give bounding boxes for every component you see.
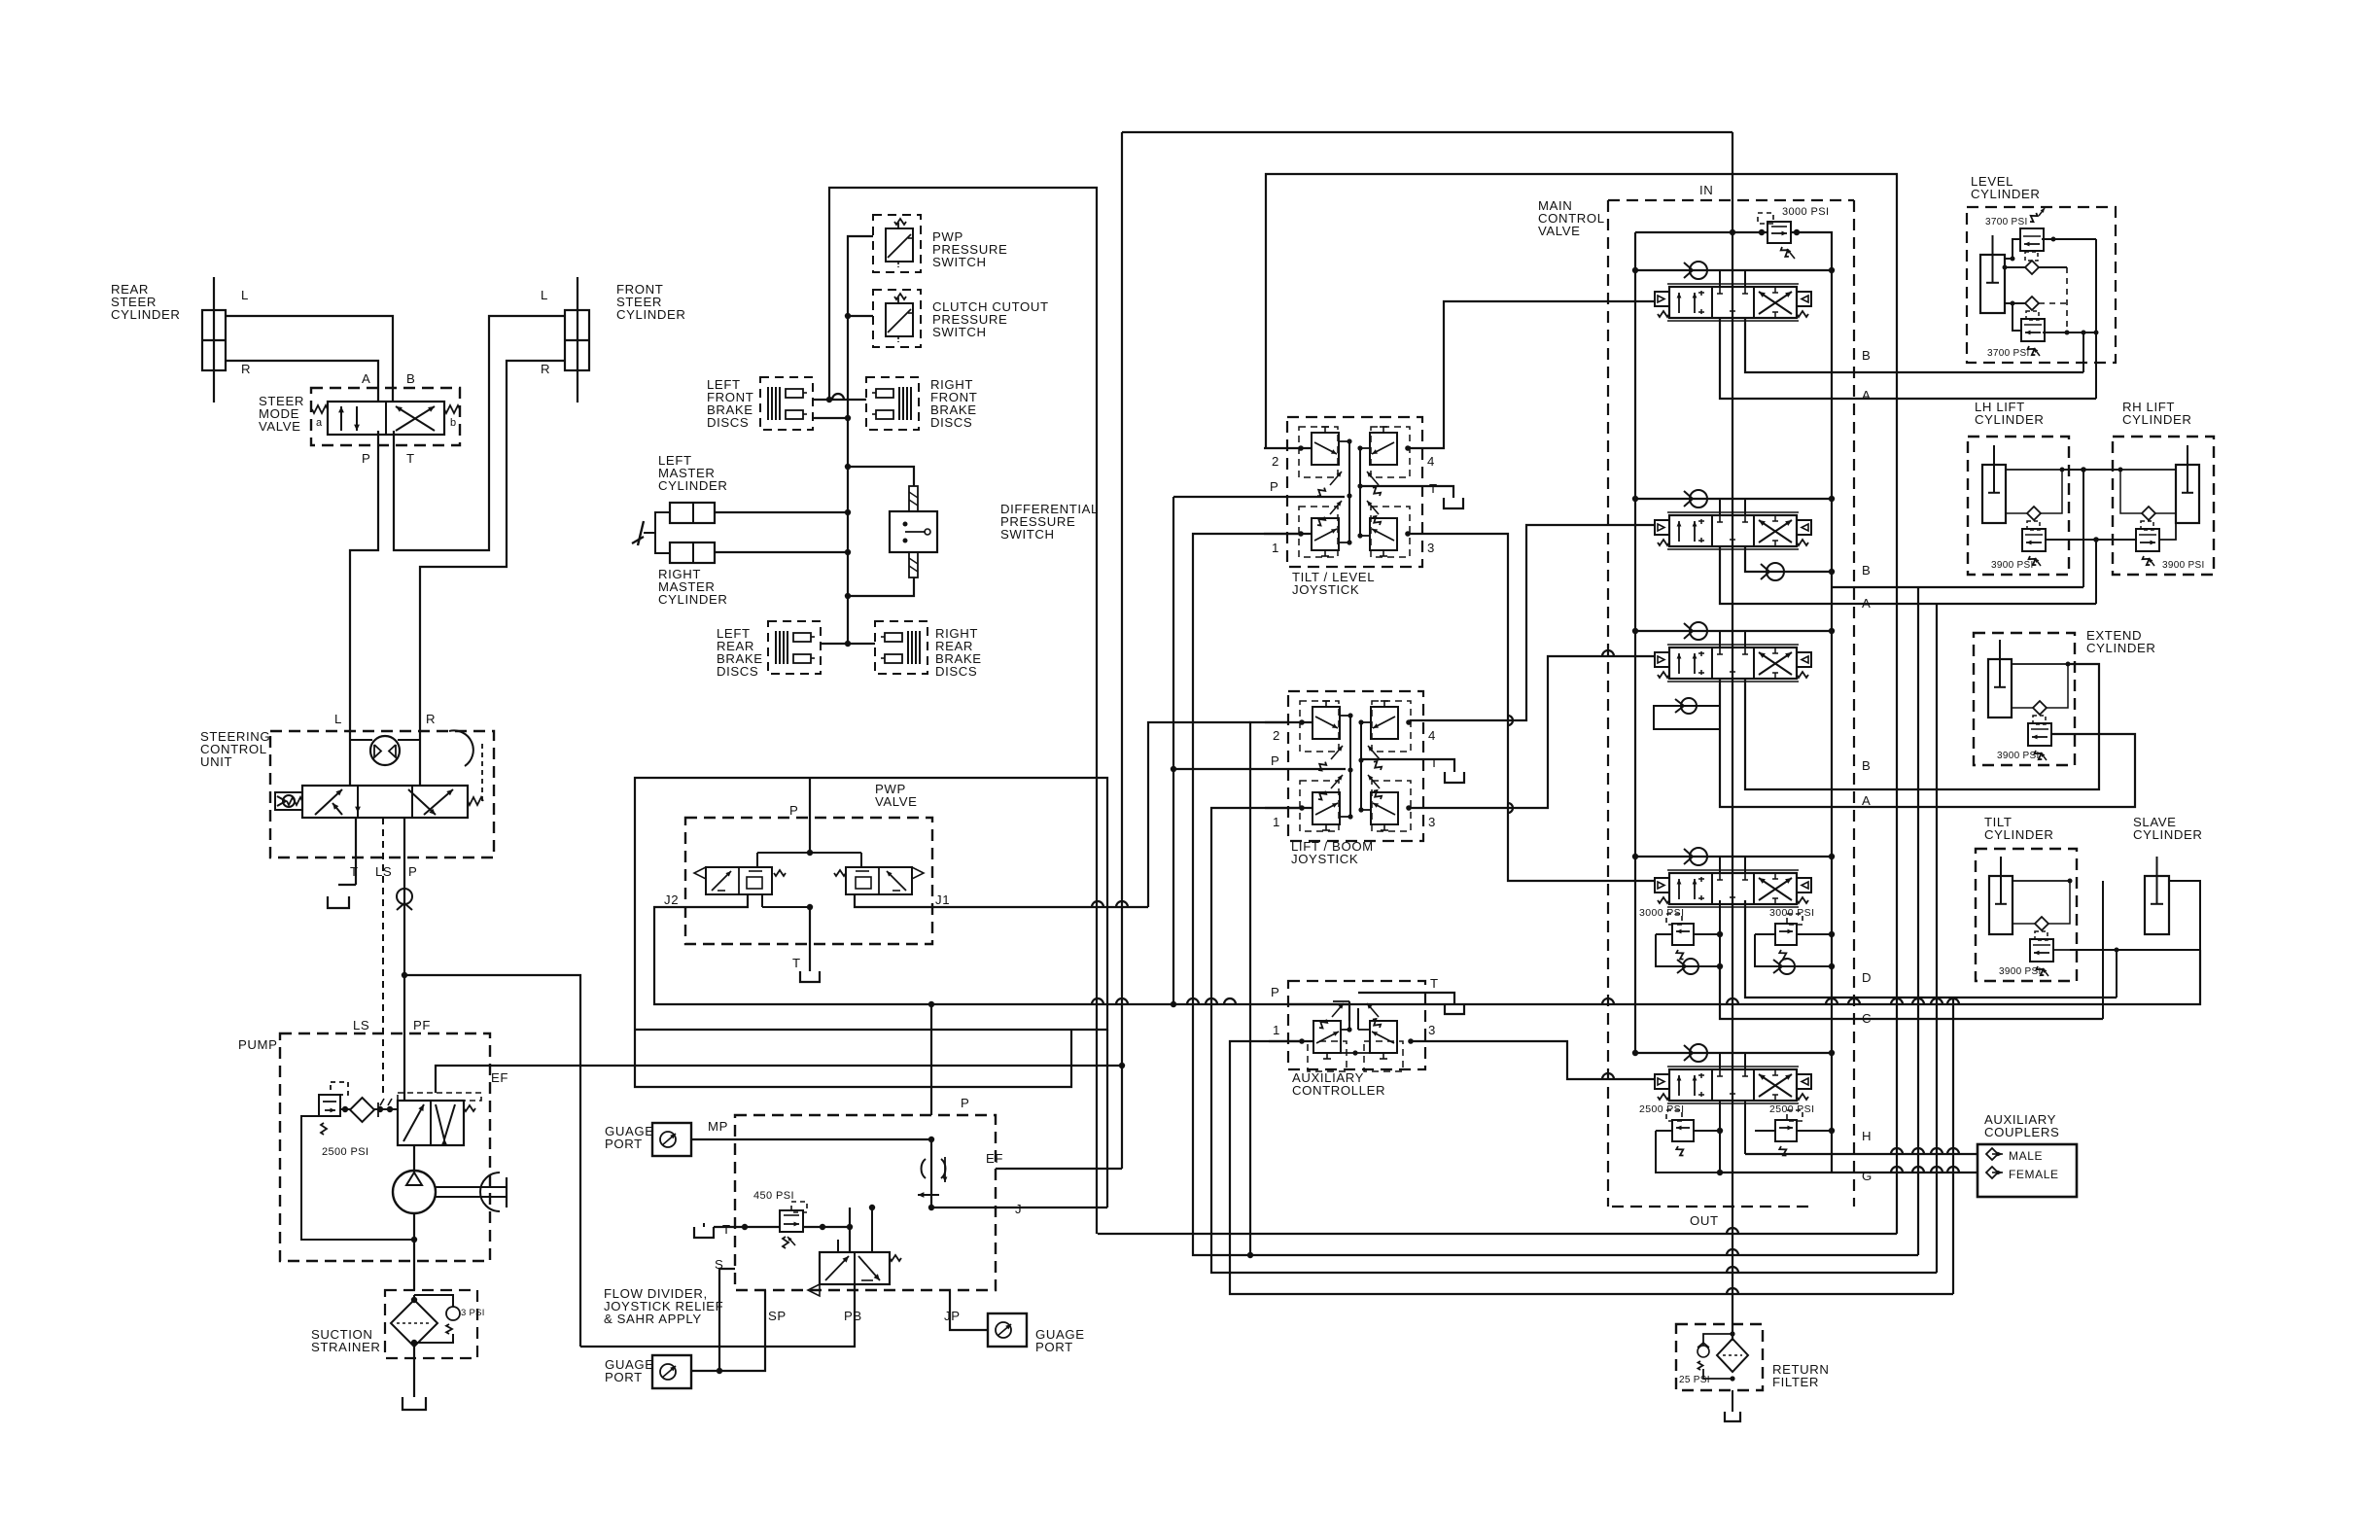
- level bot port: [2005, 302, 2025, 304]
- level cb bot out: [2043, 332, 2096, 333]
- wire pwp switch: [848, 236, 873, 644]
- tilt diamond: [2035, 917, 2048, 930]
- svg-text:DISCS: DISCS: [717, 664, 758, 679]
- level cylinder box: [1967, 207, 2116, 363]
- svg-text:DISCS: DISCS: [707, 415, 749, 430]
- wire tl port3 to s4: [1409, 534, 1655, 881]
- left front brake discs: [760, 377, 813, 430]
- filter to tank: [1732, 1390, 1733, 1412]
- svg-text:SWITCH: SWITCH: [932, 255, 987, 269]
- wire front L: [394, 316, 565, 550]
- svg-text:CYLINDER: CYLINDER: [1984, 827, 2053, 842]
- tl T out: [1360, 486, 1453, 498]
- svg-text:FILTER: FILTER: [1772, 1375, 1819, 1389]
- filter diamond: [1717, 1339, 1748, 1372]
- wire PB down: [580, 1284, 855, 1347]
- svg-text:FEMALE: FEMALE: [2009, 1168, 2059, 1181]
- mcv dashed border: [1608, 199, 1854, 201]
- pump relief 2500: [319, 1095, 340, 1116]
- svg-text:UNIT: UNIT: [200, 754, 232, 769]
- wire rear R: [226, 361, 378, 402]
- pwp left solenoid valve: [706, 867, 772, 894]
- svg-text:CYLINDER: CYLINDER: [111, 307, 180, 322]
- svg-text:L: L: [541, 288, 548, 302]
- svg-text:MP: MP: [708, 1119, 728, 1134]
- wire bus1: [1098, 1233, 1897, 1235]
- svg-text:DISCS: DISCS: [930, 415, 972, 430]
- svg-text:B: B: [1862, 563, 1871, 577]
- wire EF fd: [996, 1168, 1122, 1170]
- wire rear L: [226, 316, 393, 402]
- check feed spool 3: [1635, 630, 1832, 632]
- lh diamond: [2027, 507, 2041, 520]
- wire mcv right line: [1831, 253, 1833, 1172]
- main relief spring: [1781, 247, 1789, 257]
- svg-text:A: A: [1862, 793, 1871, 808]
- level cb bot feed: [2012, 303, 2021, 331]
- svg-text:PORT: PORT: [605, 1370, 643, 1384]
- svg-text:450 PSI: 450 PSI: [753, 1190, 794, 1202]
- wire bus3: [1230, 1293, 1953, 1295]
- spool2 B line: [1832, 586, 2083, 588]
- tilt/level joystick: [1287, 417, 1422, 567]
- aux P line: [1288, 1004, 1349, 1021]
- svg-text:B: B: [1862, 758, 1871, 773]
- svg-text:L: L: [334, 712, 342, 726]
- wire J1 riser: [1148, 722, 1250, 907]
- wire fd mid: [849, 1207, 851, 1252]
- scu tank: [328, 896, 349, 908]
- svg-text:VALVE: VALVE: [259, 419, 301, 434]
- aux couplers box: [1977, 1144, 2077, 1197]
- svg-text:JOYSTICK: JOYSTICK: [1292, 582, 1359, 597]
- svg-text:PB: PB: [844, 1309, 862, 1323]
- level riser B: [2082, 332, 2084, 372]
- svg-text:R: R: [426, 712, 436, 726]
- spool3 check loop: [1654, 706, 1721, 729]
- pump filter diamond: [350, 1098, 374, 1122]
- svg-text:A: A: [1862, 596, 1871, 611]
- pwp P line: [809, 778, 811, 853]
- svg-text:3: 3: [1428, 815, 1436, 829]
- male coupler: [1986, 1148, 1998, 1160]
- level cb bottom: [2021, 319, 2045, 341]
- strainer bypass: [413, 1295, 415, 1300]
- orifice )( symbol: [922, 1159, 926, 1178]
- level cb top feed: [2005, 239, 2020, 259]
- scu T line: [355, 818, 357, 880]
- bottom tank: [402, 1397, 426, 1410]
- tl P line: [1173, 496, 1345, 498]
- pwp outer box: [635, 778, 1107, 1030]
- brake circuit enclosure: [829, 188, 1097, 1234]
- pump case drain: [301, 1116, 414, 1240]
- jump 1992 1187: [1931, 1148, 1942, 1154]
- spool valve 3: [1655, 652, 1669, 667]
- svg-text:VALVE: VALVE: [875, 794, 918, 809]
- svg-text:J1: J1: [935, 892, 950, 907]
- jump 1973 1206: [1912, 1167, 1924, 1172]
- fd arrow: [918, 1194, 939, 1196]
- wire sahr tops: [837, 1240, 839, 1252]
- svg-text:3700 PSI: 3700 PSI: [1987, 348, 2030, 359]
- wire J fd: [931, 1207, 1107, 1208]
- spool2 B check: [1745, 546, 1832, 572]
- svg-text:3900 PSI: 3900 PSI: [2162, 560, 2205, 571]
- svg-text:CYLINDER: CYLINDER: [1975, 412, 2044, 427]
- lift/boom joystick: [1288, 691, 1423, 841]
- svg-text:L: L: [241, 288, 249, 302]
- svg-text:4: 4: [1428, 728, 1436, 743]
- pwp bottom loop: [635, 1030, 1071, 1087]
- wire tl port4 to s1: [1409, 301, 1655, 448]
- tilt wiring: [2012, 880, 2070, 882]
- svg-text:SP: SP: [768, 1309, 787, 1323]
- svg-text:JOYSTICK: JOYSTICK: [1291, 852, 1358, 866]
- fd T tank: [694, 1227, 714, 1238]
- svg-text:PORT: PORT: [605, 1137, 643, 1151]
- svg-text:T: T: [792, 956, 801, 970]
- scu LS line: [382, 818, 384, 1096]
- svg-text:CYLINDER: CYLINDER: [616, 307, 685, 322]
- extend cb: [2028, 723, 2051, 746]
- rear steer cylinder: [202, 310, 226, 370]
- right front brake discs: [866, 377, 919, 430]
- svg-text:3700 PSI: 3700 PSI: [1985, 217, 2028, 227]
- rh diamond: [2142, 507, 2155, 520]
- svg-text:T: T: [406, 451, 415, 466]
- wire front R: [420, 361, 565, 731]
- spool valve 2: [1655, 520, 1669, 535]
- wire lb T return: [1453, 771, 1455, 773]
- tilt box: [1976, 849, 2077, 981]
- svg-text:2: 2: [1273, 728, 1280, 743]
- wire right mc: [715, 551, 848, 553]
- lb P line: [1173, 768, 1346, 770]
- auxiliary controller: [1288, 981, 1425, 1069]
- jump 2009 1187: [1947, 1148, 1959, 1154]
- lh lift box: [1968, 437, 2069, 575]
- check feed spool 5: [1635, 1052, 1832, 1054]
- wire lb port4 to s2: [1410, 525, 1655, 720]
- flow divider box: [735, 1115, 996, 1290]
- spool valve 4: [1655, 878, 1669, 892]
- svg-text:DISCS: DISCS: [935, 664, 977, 679]
- pump suction line: [413, 1213, 415, 1290]
- pump relief line: [340, 1108, 350, 1110]
- svg-text:1: 1: [1273, 815, 1280, 829]
- extend box: [1974, 633, 2075, 765]
- svg-text:R: R: [541, 362, 550, 376]
- svg-text:B: B: [1862, 348, 1871, 363]
- tilt cylinder: [1989, 876, 2012, 934]
- wire top IN feed: [1122, 131, 1732, 133]
- svg-text:2500 PSI: 2500 PSI: [1639, 1103, 1684, 1115]
- svg-text:D: D: [1862, 970, 1872, 985]
- svg-text:1: 1: [1272, 541, 1279, 555]
- svg-text:P: P: [408, 864, 417, 879]
- tilt cb: [2030, 939, 2053, 962]
- pwp pressure switch: [873, 215, 921, 272]
- wire vert 1154: [1121, 132, 1123, 1169]
- wire front brakes: [813, 399, 866, 401]
- wire rear brakes: [821, 643, 875, 645]
- spool5 G line: [1720, 1172, 1977, 1173]
- svg-text:3000 PSI: 3000 PSI: [1782, 206, 1829, 218]
- spool3 A line: [1720, 679, 2135, 807]
- P riser fd: [930, 1004, 932, 1115]
- diff switch orifice bot: [909, 552, 918, 577]
- svg-text:4: 4: [1427, 454, 1435, 469]
- svg-text:G: G: [1862, 1169, 1872, 1183]
- svg-text:P: P: [1270, 479, 1278, 494]
- guage port 3: [652, 1355, 691, 1388]
- diff pressure switch: [890, 511, 937, 552]
- svg-text:PF: PF: [413, 1018, 431, 1032]
- wire main relief: [1635, 231, 1767, 233]
- wire left mc: [715, 511, 848, 513]
- svg-text:2: 2: [1272, 454, 1279, 469]
- svg-text:3000 PSI: 3000 PSI: [1639, 907, 1684, 919]
- level top port: [2005, 266, 2025, 268]
- svg-text:H: H: [1862, 1129, 1872, 1143]
- svg-text:3900 PSI: 3900 PSI: [1991, 560, 2034, 571]
- svg-text:P: P: [961, 1096, 969, 1110]
- svg-text:CYLINDER: CYLINDER: [1971, 187, 2040, 201]
- sahr valve: [820, 1252, 890, 1284]
- svg-text:3900 PSI: 3900 PSI: [1997, 751, 2040, 761]
- jump 1973 1187: [1912, 1148, 1924, 1154]
- slave bottom loop: [2199, 933, 2201, 950]
- pwp T line: [809, 907, 811, 971]
- wire out collector: [1831, 1131, 1833, 1172]
- tilt C riser: [2102, 881, 2104, 1019]
- svg-text:T: T: [1429, 481, 1438, 496]
- svg-text:R: R: [241, 362, 251, 376]
- wire L down: [349, 731, 351, 786]
- check feed spool 2: [1635, 498, 1832, 500]
- tl T line: [1293, 495, 1356, 497]
- wire lb port2: [1250, 722, 1288, 1255]
- return filter box: [1676, 1324, 1763, 1390]
- lift riser A: [2095, 540, 2097, 604]
- pump PF line: [403, 975, 405, 1101]
- rh cb valve: [2136, 529, 2159, 551]
- spool5 H line: [1745, 1153, 1977, 1155]
- pump box: [280, 1033, 490, 1261]
- pwp J2 line: [654, 894, 2200, 1004]
- level cb top: [2020, 228, 2044, 251]
- guage port 2: [988, 1313, 1027, 1347]
- scu left port symbol: [275, 792, 302, 810]
- svg-text:COUPLERS: COUPLERS: [1984, 1125, 2059, 1139]
- svg-text:CYLINDER: CYLINDER: [2133, 827, 2202, 842]
- scu feedback right: [481, 744, 483, 801]
- level riser A: [2095, 239, 2097, 399]
- svg-text:PORT: PORT: [1035, 1340, 1073, 1354]
- wire riser 1973: [1917, 587, 1919, 1255]
- level cylinder: [1980, 255, 2005, 313]
- jump 2009 1206: [1947, 1167, 1959, 1172]
- wire EF long: [1127, 1165, 1129, 1169]
- svg-text:CONTROLLER: CONTROLLER: [1292, 1083, 1385, 1098]
- svg-text:J2: J2: [664, 892, 679, 907]
- svg-text:3: 3: [1428, 1023, 1436, 1037]
- svg-text:1: 1: [1273, 1023, 1280, 1037]
- svg-text:CYLINDER: CYLINDER: [2122, 412, 2191, 427]
- wire P down: [350, 431, 378, 731]
- lift B link: [2062, 469, 2120, 471]
- wire P to flow divider: [404, 975, 580, 1347]
- steer mode valve body: [328, 402, 444, 435]
- wire JP down: [950, 1290, 988, 1330]
- rh wiring: [2120, 469, 2176, 471]
- svg-text:MALE: MALE: [2009, 1149, 2043, 1163]
- spool valve 1: [1655, 292, 1669, 306]
- scu P line: [403, 818, 405, 975]
- svg-text:VALVE: VALVE: [1538, 224, 1581, 238]
- pwp J1 line: [855, 894, 1148, 907]
- wire riser 1951: [1896, 174, 1898, 1234]
- svg-text:LS: LS: [375, 864, 392, 879]
- pump circle: [393, 1171, 436, 1213]
- jump j1: [1092, 901, 1103, 907]
- spool4 relief wiring: [1656, 933, 1672, 935]
- wire tl port2: [1264, 447, 1301, 449]
- pump swash valve: [398, 1101, 464, 1145]
- svg-text:STRAINER: STRAINER: [311, 1340, 380, 1354]
- scu check on P: [397, 889, 412, 904]
- pwp tank: [800, 971, 820, 982]
- svg-text:CYLINDER: CYLINDER: [658, 592, 727, 607]
- wire J continue: [930, 1139, 932, 1207]
- diff switch orifice top: [909, 486, 918, 511]
- check feed spool 1: [1635, 269, 1832, 271]
- svg-text:JP: JP: [944, 1309, 961, 1323]
- female coupler: [1986, 1167, 1998, 1178]
- lift riser B: [2082, 470, 2084, 587]
- fd relief: [780, 1210, 803, 1232]
- spool4 C line: [1720, 966, 2103, 1019]
- spool5 relief R: [1775, 1120, 1797, 1141]
- extend wiring: [2012, 663, 2068, 665]
- tilt D riser: [2070, 881, 2103, 1019]
- wire S line: [691, 1269, 735, 1371]
- scu arc right: [449, 730, 473, 766]
- wire tl port1: [1193, 534, 1918, 1255]
- lh cb valve: [2022, 529, 2046, 551]
- svg-text:T: T: [1430, 976, 1439, 991]
- wire R down: [419, 731, 421, 786]
- wire aux port1: [1230, 1041, 1953, 1294]
- wire clutch switch: [848, 315, 873, 317]
- right master cylinder: [670, 542, 715, 563]
- svg-text:a: a: [316, 417, 323, 429]
- svg-text:b: b: [450, 417, 457, 429]
- wire fd T: [714, 1226, 780, 1228]
- jump out 1331: [1727, 1288, 1738, 1294]
- svg-text:IN: IN: [1699, 183, 1713, 197]
- wire bus2 right: [1896, 174, 1898, 1234]
- svg-text:2500 PSI: 2500 PSI: [322, 1146, 368, 1158]
- right rear brake discs: [875, 621, 927, 674]
- wire P riser joysticks: [1172, 497, 1174, 1004]
- svg-text:P: P: [1271, 753, 1279, 768]
- spool2 A line: [1720, 546, 2096, 604]
- wire EF out: [436, 1066, 1122, 1093]
- wire lb port1: [1211, 808, 1937, 1273]
- scu gerotor: [370, 736, 400, 765]
- spool3 B line: [1745, 664, 2099, 789]
- svg-text:SWITCH: SWITCH: [1000, 527, 1055, 542]
- svg-text:T: T: [350, 864, 359, 879]
- svg-text:P: P: [362, 451, 370, 466]
- pwp P branches: [757, 852, 861, 854]
- svg-text:J: J: [1015, 1202, 1022, 1216]
- filter bypass: [1730, 1331, 1734, 1336]
- svg-text:CYLINDER: CYLINDER: [2086, 641, 2155, 655]
- svg-text:25 PSI: 25 PSI: [1679, 1375, 1710, 1385]
- svg-text:3000 PSI: 3000 PSI: [1769, 907, 1814, 919]
- aux T out: [1358, 993, 1454, 1003]
- wire diff bot: [848, 577, 914, 596]
- slave cylinder: [2145, 876, 2169, 934]
- spool4 relief L: [1672, 924, 1694, 945]
- svg-text:EF: EF: [986, 1151, 1003, 1166]
- slave wiring: [2169, 881, 2200, 933]
- strainer diamond: [391, 1300, 437, 1347]
- svg-text:CYLINDER: CYLINDER: [658, 478, 727, 493]
- spool4 D line: [1745, 900, 1748, 982]
- svg-text:A: A: [362, 371, 370, 386]
- svg-text:T: T: [1430, 755, 1439, 770]
- brake pedal: [655, 512, 670, 553]
- level cb top out: [2042, 238, 2096, 240]
- extend diamond: [2033, 701, 2047, 715]
- wire riser 1992: [1936, 604, 1938, 1273]
- wire vert 1302: [1266, 174, 1898, 448]
- rh lift cylinder: [2176, 465, 2199, 523]
- svg-text:LS: LS: [353, 1018, 369, 1032]
- wire aux port3 to s5: [1411, 1041, 1655, 1079]
- svg-text:A: A: [1862, 388, 1871, 402]
- lh wiring: [2006, 469, 2062, 471]
- svg-text:2500 PSI: 2500 PSI: [1769, 1103, 1814, 1115]
- spool1 B line: [1745, 318, 2083, 372]
- jump 1951 1187: [1891, 1148, 1903, 1154]
- wire mp: [691, 1138, 931, 1140]
- jump 1992 1206: [1931, 1167, 1942, 1172]
- spool4 relief R: [1775, 924, 1797, 945]
- level pilot dash: [2066, 267, 2068, 332]
- svg-text:EF: EF: [491, 1070, 508, 1085]
- strainer to tank: [413, 1347, 415, 1397]
- spool valve 5: [1655, 1074, 1669, 1089]
- tilt D out: [2070, 950, 2117, 997]
- lh lift cylinder: [1982, 465, 2006, 523]
- extend cylinder: [1988, 659, 2012, 717]
- svg-text:C: C: [1862, 1011, 1872, 1026]
- lift A link: [2046, 542, 2136, 543]
- lb T out: [1361, 759, 1454, 772]
- spool5 relief wiring: [1656, 1130, 1672, 1132]
- svg-text:& SAHR APPLY: & SAHR APPLY: [604, 1312, 702, 1326]
- rh lift box: [2113, 437, 2214, 575]
- wire mcv left feed: [1634, 232, 1636, 1055]
- spool1 A line: [1720, 318, 2096, 399]
- main relief 3000: [1767, 222, 1791, 243]
- jump out 1291: [1727, 1249, 1738, 1255]
